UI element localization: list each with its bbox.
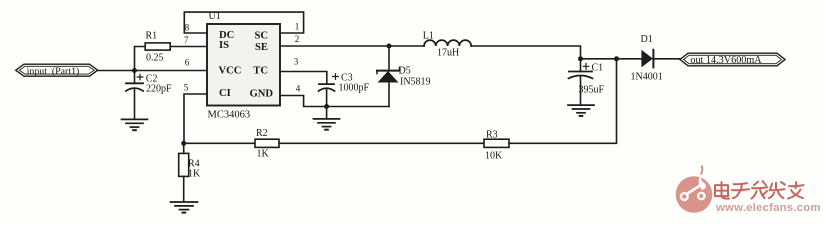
ground below C3	[314, 119, 340, 130]
capacitor C3	[319, 74, 339, 107]
node feedback junction R2/R4/pin5	[181, 141, 186, 146]
wire D5 cathode lead	[388, 46, 390, 71]
svg-text:SE: SE	[255, 42, 268, 53]
svg-text:5: 5	[184, 83, 189, 93]
svg-text:4: 4	[296, 84, 301, 94]
node input/C2/R1 junction	[132, 68, 137, 73]
svg-text:CI: CI	[219, 88, 231, 99]
svg-text:IN5819: IN5819	[400, 76, 431, 87]
ground below C2	[122, 119, 148, 130]
output port connector	[680, 53, 785, 66]
ground below R4	[171, 202, 198, 213]
capacitor C2	[126, 71, 143, 120]
svg-text:8: 8	[185, 23, 190, 33]
svg-text:R3: R3	[486, 129, 498, 140]
svg-text:17uH: 17uH	[437, 48, 459, 59]
svg-text:R2: R2	[256, 128, 268, 139]
svg-text:7: 7	[184, 35, 189, 45]
wire R4 top lead	[183, 143, 185, 153]
watermark logo icon	[676, 166, 713, 213]
wire input to VCC pin 6	[98, 70, 207, 72]
watermark title text (Chinese)	[715, 181, 804, 199]
svg-text:1000pF: 1000pF	[339, 82, 370, 93]
wire pin 3 to C3	[280, 72, 327, 85]
svg-text:VCC: VCC	[219, 66, 242, 77]
capacitor C1	[569, 59, 593, 105]
svg-text:C1: C1	[592, 63, 604, 74]
wire output rail to D1	[581, 58, 642, 60]
svg-text:out 14.3V600mA: out 14.3V600mA	[690, 55, 762, 66]
svg-text:2: 2	[295, 34, 300, 44]
svg-text:IS: IS	[219, 40, 229, 51]
svg-text:GND: GND	[249, 89, 273, 100]
diode D1	[641, 50, 680, 68]
node D5 tap	[387, 44, 392, 49]
svg-text:220pF: 220pF	[146, 84, 172, 95]
svg-text:1K: 1K	[188, 169, 201, 180]
svg-text:1K: 1K	[257, 149, 270, 160]
resistor R1	[145, 43, 170, 50]
diode D5 schottky	[377, 68, 400, 107]
wire pin 4 to ground rail	[280, 96, 389, 107]
wire R4 bottom lead	[183, 176, 185, 201]
resistor R3	[484, 139, 509, 147]
wire R1 left lead down to input net	[135, 47, 146, 71]
wire R3 up to output node	[509, 59, 617, 144]
svg-text:10K: 10K	[485, 150, 503, 161]
svg-text:1: 1	[295, 22, 300, 32]
wire SE pin 2 to L1	[280, 45, 424, 47]
ground below C1	[568, 105, 594, 116]
svg-text:6: 6	[185, 58, 190, 68]
node C1 tap	[578, 56, 583, 61]
svg-text:SC: SC	[254, 31, 268, 42]
svg-text:3: 3	[294, 57, 299, 67]
wire pin 7 from R1	[170, 46, 207, 48]
svg-text:L1: L1	[423, 31, 434, 42]
input port connector	[16, 64, 98, 77]
svg-text:395uF: 395uF	[579, 85, 605, 96]
wire L1 to C1 corner	[471, 46, 580, 59]
wire pin 8 to top bus to pin 1	[184, 12, 303, 33]
wire feedback node to R2	[184, 142, 255, 144]
svg-text:MC34063: MC34063	[208, 110, 251, 121]
wire pin 5 down to feedback node	[184, 94, 207, 143]
inductor L1	[424, 40, 471, 46]
svg-text:www.elecfans.com: www.elecfans.com	[715, 202, 821, 214]
wire R2 to R3	[279, 142, 484, 144]
svg-text:0.25: 0.25	[146, 53, 164, 64]
node C3/gnd junction	[324, 104, 329, 109]
IC U1 MC34063 body	[207, 24, 280, 106]
resistor R4	[179, 153, 189, 176]
svg-text:input (Part1): input (Part1)	[27, 66, 80, 77]
resistor R2	[255, 139, 279, 147]
svg-text:D1: D1	[641, 34, 653, 45]
svg-text:D5: D5	[399, 66, 411, 77]
svg-text:TC: TC	[253, 66, 268, 77]
svg-text:1N4001: 1N4001	[631, 72, 663, 83]
svg-text:R1: R1	[146, 31, 158, 42]
svg-text:U1: U1	[209, 11, 221, 22]
node feedback tap on output rail	[614, 56, 619, 61]
